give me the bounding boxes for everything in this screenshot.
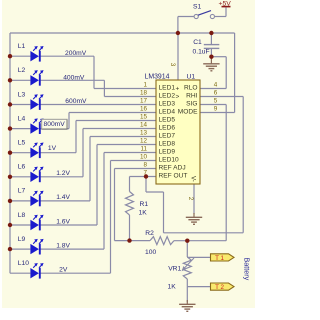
node LED L2 anode junction [8,78,12,82]
IC pin number 18 [140,90,148,97]
svg-text:MODE: MODE [178,109,198,116]
wire left anode bus [9,33,11,273]
svg-text:RHI: RHI [186,93,198,100]
wire MODE pin 9 up to +5V rail [200,33,235,113]
svg-text:REF ADJ: REF ADJ [159,165,186,172]
svg-text:5: 5 [214,98,218,105]
net label 800mV [44,121,66,128]
svg-text:400mV: 400mV [63,74,85,81]
node LED L5 anode junction [8,151,12,155]
wire C1 bottom lead [210,49,212,57]
wire C1 top lead [210,33,212,44]
svg-text:13: 13 [140,130,148,137]
terminal T1 [211,254,235,262]
net label 1.8V [56,242,70,249]
node VR1 top junction [185,239,189,243]
wire RLO pin 4 to C1 ground node [200,57,226,89]
svg-text:L1: L1 [18,43,26,50]
wire L2 cathode to IC pin 18 [40,80,156,96]
svg-text:15: 15 [140,114,148,121]
wire V+ pin 3 [177,33,179,80]
label L4 [18,115,26,122]
IC pin number 7 [143,170,147,177]
svg-text:T 2: T 2 [215,284,224,291]
svg-text:LED10: LED10 [159,157,179,164]
svg-text:LED2: LED2 [159,93,176,100]
LED L6 [30,167,43,183]
svg-text:1V: 1V [48,145,57,152]
IC pin number 11 [140,146,147,153]
label S1 [193,3,201,10]
svg-text:LED9: LED9 [159,149,176,156]
svg-text:L10: L10 [18,260,29,267]
net label 1.4V [56,194,70,201]
label L1 [18,43,26,50]
label Battery [243,258,252,281]
label L3 [18,91,26,98]
wire top +5V rail [10,32,235,34]
svg-text:L2: L2 [18,67,26,74]
IC pin number 6 [214,90,218,97]
label L6 [18,164,26,171]
LED L2 [30,70,43,86]
IC pin name LED3 [159,101,176,108]
svg-text:9: 9 [214,106,218,113]
switch S1 [194,11,214,19]
node REF OUT junction [144,174,148,178]
IC pin name LED9 [159,149,176,156]
svg-text:LED1: LED1 [159,85,176,92]
wire L1 cathode to IC pin 1 [40,56,156,88]
svg-text:6: 6 [214,90,218,97]
svg-text:800mV: 800mV [44,121,66,128]
wire L4 anode from bus [10,128,30,130]
IC pin number 14 [140,122,148,129]
node LED L1 anode junction [8,54,12,58]
svg-text:L4: L4 [18,115,26,122]
net label 400mV [63,74,85,81]
wire RHI pin 6 [200,97,243,233]
label U1 [187,74,196,81]
IC pin name LED8 [159,141,176,148]
wire L6 cathode to IC pin 14 [40,129,156,177]
svg-text:LED5: LED5 [159,117,176,124]
svg-text:1.2V: 1.2V [56,170,70,177]
IC pin number 17 [140,98,148,105]
svg-text:4: 4 [214,82,218,89]
wire L4 cathode to IC pin 16 [40,113,156,129]
label R2 value 100 [145,249,156,256]
wire L7 anode from bus [10,200,30,202]
svg-text:0.1uF: 0.1uF [193,49,210,56]
label R2 [145,230,154,237]
svg-text:1.6V: 1.6V [56,218,70,225]
IC pin number 16 [140,106,148,113]
terminal T2 [211,283,235,291]
node LED L3 anode junction [8,102,12,106]
label VR1 [168,265,181,272]
label R1 value 1K [139,209,148,216]
wire VR1 top lead [186,241,188,257]
label L8 [18,212,26,219]
svg-text:V-: V- [190,176,197,182]
IC pin name LED2 [159,93,176,100]
IC pin name SIG [186,101,197,108]
svg-text:REF OUT: REF OUT [159,173,188,180]
svg-text:200mV: 200mV [65,50,87,57]
net label 1.2V [56,170,70,177]
node LED L6 anode junction [8,175,12,179]
ground below C1 [203,57,219,71]
ground below IC V- pin 2 [186,213,202,224]
svg-text:2V: 2V [59,266,68,273]
op-amp U1 LM3914 body [156,80,200,184]
LED L5 [30,143,43,159]
svg-text:1K: 1K [139,209,148,216]
svg-text:Battery: Battery [243,258,252,281]
wire T1 tap [187,256,210,258]
svg-text:LED3: LED3 [159,101,176,108]
node C1 bottom ground junction [209,55,213,59]
svg-text:1K: 1K [168,283,177,290]
IC pin name V- rotated [190,176,197,182]
wire VR1 bottom lead [186,279,188,287]
wire R1 bottom lead to rail node [129,215,131,241]
IC pin number 1 [143,82,147,89]
resistor R1 [126,192,134,216]
net label 1.6V [56,218,70,225]
wire L10 cathode to IC pin 10 [40,161,156,274]
LED L7 [30,191,43,207]
tooltip box around 800mV net label [42,119,68,129]
svg-text:11: 11 [140,146,147,153]
IC pin name LED10 [159,157,179,164]
svg-text:LED4: LED4 [159,109,176,116]
wire jog REF OUT node down and right to RHI [146,177,243,233]
svg-text:10: 10 [140,154,148,161]
IC pin name LED1 [159,85,176,92]
net label 600mV [65,98,87,105]
svg-text:17: 17 [140,98,148,105]
net label 2V [59,266,68,273]
svg-text:3: 3 [169,63,176,67]
IC pin number 12 [140,138,148,145]
svg-text:>: > [176,93,180,100]
wire SIG pin 5 down to divider rail [174,105,226,241]
svg-text:18: 18 [140,90,148,97]
IC pin number 5 [214,98,218,105]
svg-text:C1: C1 [193,39,202,46]
wire L8 anode from bus [10,224,30,226]
wire L8 cathode to IC pin 12 [40,145,156,226]
svg-text:+5V: +5V [219,0,232,7]
svg-text:1.4V: 1.4V [56,194,70,201]
svg-text:U1: U1 [187,74,196,81]
svg-text:L9: L9 [18,236,26,243]
wire L3 anode from bus [10,104,30,106]
IC pin number 2 rotated [187,197,194,201]
label L10 [18,260,29,267]
wire REF ADJ pin 8 to bottom rail [115,169,157,241]
capacitor C1 [204,45,220,49]
svg-text:T 1: T 1 [215,255,224,262]
label VR1 value 1K [168,283,177,290]
LED L1 [30,46,43,62]
IC pin number 8 [143,162,147,169]
svg-text:16: 16 [140,106,148,113]
node LED L9 anode junction [8,247,12,251]
node S1/V+ junction [176,31,180,35]
LED L8 [30,215,43,231]
IC pin number 3 rotated [169,63,176,67]
LED L10 [30,263,43,279]
power +5V symbol [219,0,232,7]
IC pin name LED7 [159,133,176,140]
svg-text:L3: L3 [18,91,26,98]
svg-text:12: 12 [140,138,148,145]
wire L5 anode from bus [10,152,30,154]
svg-text:LM3914: LM3914 [145,74,170,81]
IC mark near LED2 [176,93,180,100]
LED L3 [30,94,43,110]
IC plus mark near LED1 [176,85,180,92]
IC pin name LED5 [159,117,176,124]
IC pin name MODE [178,109,198,116]
svg-text:S1: S1 [193,3,201,10]
IC pin number 9 [214,106,218,113]
node R1 bottom junction [127,238,131,242]
svg-text:R2: R2 [145,230,154,237]
IC pin name RLO [184,85,198,92]
svg-text:SIG: SIG [186,101,197,108]
svg-text:1: 1 [143,82,147,89]
label C1 value 0.1uF [193,49,210,56]
potentiometer VR1 [182,257,194,279]
wire VR1 bottom to ground [186,287,188,302]
svg-text:14: 14 [140,122,148,129]
wire L9 cathode to IC pin 11 [40,153,156,250]
IC pin name LED4 [159,109,176,116]
svg-text:L7: L7 [18,188,26,195]
svg-text:L6: L6 [18,164,26,171]
svg-text:+: + [176,85,180,92]
label L5 [18,140,26,147]
svg-text:VR1: VR1 [168,265,181,272]
wire T2 tap [187,286,210,288]
net label 1V [48,145,57,152]
label L7 [18,188,26,195]
wire REF OUT pin 7 to R1 top [130,177,157,192]
wire L1 anode from bus [10,55,30,57]
svg-text:1.8V: 1.8V [56,242,70,249]
svg-text:RLO: RLO [184,85,198,92]
label L2 [18,67,26,74]
net label 200mV [65,50,87,57]
wire L7 cathode to IC pin 13 [40,137,156,201]
IC pin name REF OUT [159,173,188,180]
LED L9 [30,239,43,255]
IC pin number 10 [140,154,148,161]
IC pin number 4 [214,82,218,89]
label L9 [18,236,26,243]
resistor R2 [150,237,174,245]
IC pin name LED6 [159,125,176,132]
wire L3 cathode to IC pin 17 [40,104,156,106]
svg-text:2: 2 [187,197,194,201]
IC pin number 13 [140,130,148,137]
svg-text:LED8: LED8 [159,141,176,148]
wire L5 cathode to IC pin 15 [40,121,156,153]
svg-text:LED7: LED7 [159,133,176,140]
svg-text:LED6: LED6 [159,125,176,132]
ground below VR1 [179,300,195,311]
wire L10 anode from bus [10,272,30,274]
label LM3914 [145,74,170,81]
svg-text:8: 8 [143,162,147,169]
node C1 top junction [209,31,213,35]
IC pin name REF ADJ [159,165,186,172]
node LED L7 anode junction [8,199,12,203]
svg-text:600mV: 600mV [65,98,87,105]
LED L4 [30,118,43,134]
IC pin number 15 [140,114,148,121]
wire V- pin 2 to ground [193,184,195,214]
wire S1 right terminal to +5V [215,8,226,17]
svg-text:L5: L5 [18,140,26,147]
label R1 [140,201,149,208]
svg-text:R1: R1 [140,201,149,208]
label C1 [193,39,202,46]
IC pin name RHI [186,93,198,100]
wire L6 anode from bus [10,176,30,178]
svg-text:L8: L8 [18,212,26,219]
svg-text:100: 100 [145,249,156,256]
wire L2 anode from bus [10,79,30,81]
wire S1 left terminal down to rail [178,17,194,34]
wire L9 anode from bus [10,248,30,250]
node LED L8 anode junction [8,223,12,227]
node LED L4 anode junction [8,126,12,130]
